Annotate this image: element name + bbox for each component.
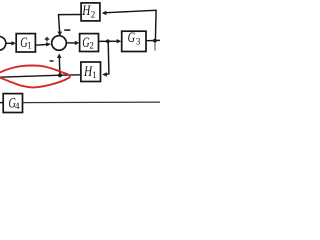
summing junction S2 <box>52 36 67 51</box>
block G1 <box>16 34 35 52</box>
block H1 <box>81 62 101 82</box>
block G2 <box>80 34 99 52</box>
svg-text:2: 2 <box>91 10 96 20</box>
wire S2 to G2 <box>66 42 77 44</box>
arrowhead into G1 <box>11 41 16 45</box>
block G3 <box>122 31 146 51</box>
svg-text:1: 1 <box>92 70 97 80</box>
wire stub below node <box>154 41 156 51</box>
wire G3 to output node <box>146 39 160 41</box>
svg-text:2: 2 <box>89 40 94 50</box>
wire node to H1 <box>106 41 109 74</box>
minus sign at S2 bottom input <box>50 60 54 62</box>
svg-text:1: 1 <box>27 41 32 51</box>
junction dot at output node <box>153 39 157 43</box>
minus sign at S2 top input <box>64 29 70 31</box>
block H2 <box>81 3 100 21</box>
arrowhead into G3 <box>117 39 122 43</box>
summing junction S1 (left edge, partial) <box>0 36 6 50</box>
junction dot bottom feedback <box>58 73 62 77</box>
wire H2 to S2 top <box>59 15 82 34</box>
wire long feedback line left <box>0 75 60 77</box>
arrowhead into H2 (left) <box>102 11 107 15</box>
wire H1 to bottom node <box>60 74 81 76</box>
svg-text:4: 4 <box>15 101 20 111</box>
wire bottom node up to S2 <box>58 56 61 75</box>
wire G1 to S2 <box>35 43 47 46</box>
wire G4 input stub <box>0 102 3 104</box>
arrowhead into S2 bottom (up) <box>57 54 62 59</box>
arrowhead into S2 left <box>46 42 51 46</box>
arrowhead into G2 <box>75 41 80 45</box>
arrowhead into S2 top (down) <box>58 32 63 36</box>
svg-text:G: G <box>128 30 136 46</box>
arrowhead into H1 (left) <box>102 72 107 76</box>
wire node up to H2 feedback <box>106 10 156 40</box>
svg-text:3: 3 <box>136 36 141 46</box>
plus sign at S2 left input <box>45 38 50 39</box>
wire G2 to G3 <box>99 40 120 42</box>
red highlight ellipse (hand-drawn) <box>0 65 70 87</box>
junction dot between G2 and G3 <box>106 39 110 43</box>
wire S1 to G1 <box>6 42 13 44</box>
wire G4 output long line <box>23 101 161 104</box>
block G4 <box>3 94 22 113</box>
